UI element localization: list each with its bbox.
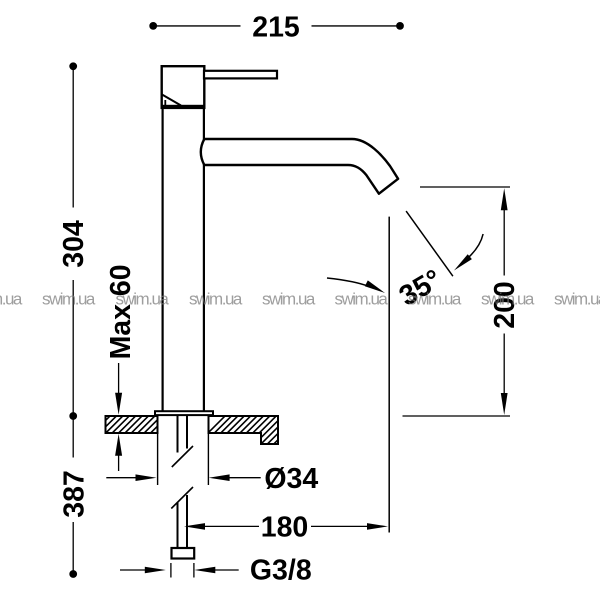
base flange — [155, 411, 213, 415]
svg-text:swim.ua: swim.ua — [554, 290, 600, 309]
lever handle — [204, 71, 277, 79]
svg-text:180: 180 — [261, 512, 309, 544]
dimension 387 (left lower) — [72, 416, 74, 574]
countertop deck right (hatched, stepped edge) — [196, 415, 303, 445]
svg-text:swim.ua: swim.ua — [0, 290, 23, 309]
spout — [201, 139, 398, 194]
svg-text:swim.ua: swim.ua — [116, 290, 170, 309]
svg-text:387: 387 — [58, 470, 90, 518]
svg-text:304: 304 — [58, 220, 90, 268]
dimension G3/8 — [120, 569, 147, 571]
dimension O34 — [106, 477, 137, 479]
countertop deck left (hatched) — [92, 415, 175, 434]
lever base diagonal — [162, 95, 181, 106]
hole edge projection lines — [158, 416, 209, 485]
svg-text:Ø34: Ø34 — [264, 463, 318, 495]
dimension 215 (top) — [153, 25, 400, 27]
dimension 200 (right) — [420, 186, 510, 188]
svg-text:215: 215 — [252, 12, 300, 44]
break marks — [171, 446, 193, 509]
G3/8 end fitting — [172, 548, 195, 559]
dimension 180 — [184, 523, 205, 530]
dimension 304 (left) — [72, 66, 74, 416]
faucet body column — [163, 108, 204, 412]
svg-text:swim.ua: swim.ua — [335, 290, 389, 309]
svg-text:swim.ua: swim.ua — [262, 290, 316, 309]
faucet head (cartridge housing) — [162, 66, 205, 106]
svg-text:Max 60: Max 60 — [105, 264, 137, 359]
svg-text:swim.ua: swim.ua — [408, 290, 462, 309]
head bottom collar (thick bar) — [161, 105, 206, 109]
svg-text:G3/8: G3/8 — [250, 555, 312, 587]
svg-text:swim.ua: swim.ua — [189, 290, 243, 309]
35 degree annotation — [406, 211, 453, 276]
watermarks — [0, 290, 600, 309]
svg-text:swim.ua: swim.ua — [481, 290, 535, 309]
threaded shank (broken) — [178, 416, 188, 549]
svg-text:swim.ua: swim.ua — [42, 290, 96, 309]
